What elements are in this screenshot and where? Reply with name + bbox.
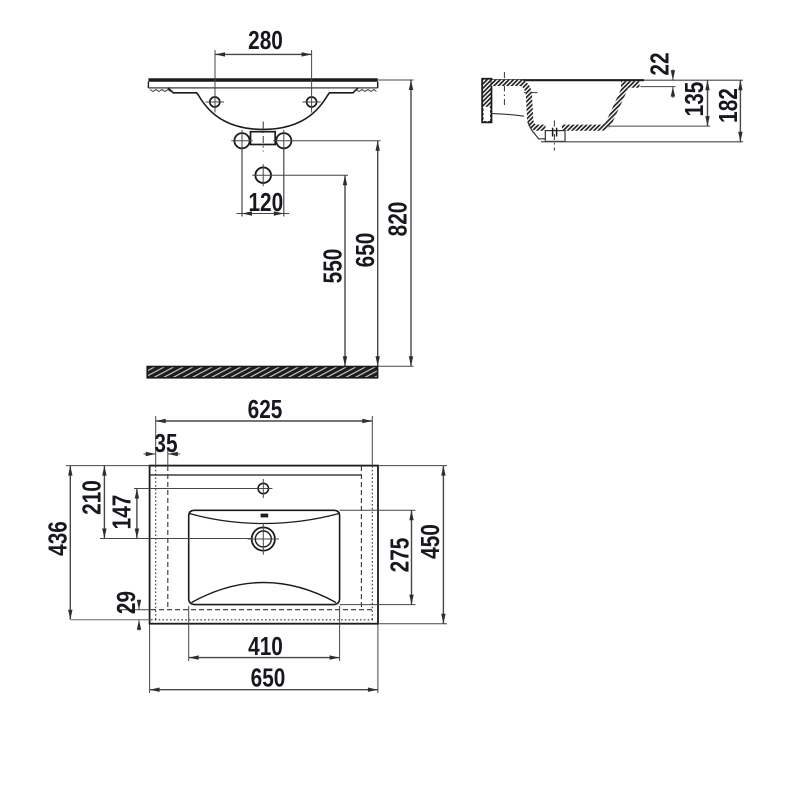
extension line: plan bottom edge to 450 dim (378, 623, 447, 625)
side view: fixing hole centerline (vertical) (503, 72, 505, 106)
dimension 210 (77, 466, 106, 539)
extension line: faucet hole to 147 dim (134, 488, 258, 490)
dimension 147 (107, 489, 139, 539)
extension line from bolt holes to 650 dim (295, 140, 381, 142)
extension line: bowl bottom to 275 dim (340, 604, 416, 606)
dimension 22 (outside arrows) (645, 52, 675, 98)
front view: overflow/trap box (251, 132, 276, 145)
svg-text:436: 436 (43, 521, 72, 556)
svg-text:550: 550 (318, 249, 347, 284)
plan view: outer rectangle (650 x 450 top) (150, 466, 378, 624)
front view: right fixing bolt hole (273, 130, 294, 152)
svg-text:820: 820 (383, 202, 412, 237)
svg-text:450: 450 (416, 524, 445, 559)
front view: left fixing bolt hole (231, 130, 252, 152)
svg-text:625: 625 (248, 395, 283, 424)
front view: left faucet hole (206, 97, 224, 107)
front view: drain hole (252, 164, 274, 186)
dimension 650 (bolt height) (351, 141, 380, 367)
plan view: hidden dashed outline (left) (167, 466, 169, 610)
dimension 550 (drain height) (318, 175, 347, 366)
dimension 650: extension verticals (150, 625, 378, 693)
extension line floor to 820 dim (378, 365, 414, 367)
plan view: overflow slot (261, 514, 269, 518)
front view: right break squiggle (356, 90, 377, 92)
side view: wall bracket (hatched section) (482, 79, 491, 123)
dimension 275 (385, 510, 414, 604)
plan view: hidden dashed outline (bottom) (151, 609, 374, 611)
svg-text:135: 135 (680, 82, 709, 117)
dimension 625 (156, 395, 373, 424)
dimension 120 (237, 188, 290, 217)
side view: overflow centerline (horizontal) (524, 92, 538, 94)
extension line from drain to 550 dim (274, 174, 348, 176)
svg-text:35: 35 (154, 429, 177, 458)
dimension 450 (416, 466, 446, 624)
extension line: dotted bottom line extended left (436/29) (71, 619, 151, 621)
dimension 820 (rim height) (383, 80, 413, 366)
dimension 29 (outside arrows) (112, 591, 142, 631)
dimension 280: extension lines (215, 50, 312, 113)
front view: right faucet hole (302, 97, 320, 107)
dimension 120: extension lines (pedestal sides) (242, 150, 284, 217)
plan view: back edge inner line (151, 474, 362, 476)
side view: outer bottom and drain boss outline (528, 122, 545, 139)
plan view: bowl front slope arc (192, 583, 337, 603)
front view: basin outline with bowl arc (168, 88, 358, 129)
front view: left break squiggle (150, 90, 171, 92)
front view: wall mounting bar (basin rim, front elevation) (148, 80, 377, 88)
dimension 436 (43, 466, 72, 620)
svg-text:29: 29 (112, 591, 141, 614)
side view: front rim section (hatched blob) (621, 81, 640, 88)
dimension 625: extension verticals (156, 416, 373, 466)
svg-text:182: 182 (714, 88, 743, 123)
dimension 182 (714, 80, 743, 142)
plan view: bowl back inner rim curve (189, 514, 339, 524)
dimension 410: extension verticals (189, 606, 340, 661)
plan view: drain (double circle) (248, 523, 279, 554)
extension line: plan top edge to 450 dim (378, 465, 447, 467)
svg-text:120: 120 (248, 188, 283, 217)
plan view: hidden dashed outline (right) (360, 466, 362, 610)
svg-text:410: 410 (248, 632, 283, 661)
svg-text:650: 650 (351, 233, 380, 268)
dimension 35: extension vertical (167, 448, 169, 466)
dimension 280 (215, 26, 312, 57)
side view: ceramic section band (deck, bowl walls and floor, hatched) (492, 83, 627, 128)
extension line: plan top edge extended left (66, 465, 150, 467)
plan view: faucet hole (254, 479, 272, 498)
dimension 410 (189, 632, 340, 661)
plan view: hidden dotted outline (bottom) (151, 619, 374, 621)
front view: vertical centerline (262, 122, 264, 152)
side view: outer shell underside line (492, 114, 525, 117)
svg-text:275: 275 (385, 538, 414, 573)
svg-text:650: 650 (251, 663, 286, 692)
extension line: bowl top edge to 275 dim (340, 509, 416, 511)
dimension 135 (680, 80, 710, 126)
extension line top to 820 dim (378, 79, 414, 81)
extension line: dashed line extended left (29) (118, 609, 151, 611)
front view: floor strip (hatched) (147, 367, 377, 378)
plan view: hidden dotted outline (left) (155, 466, 157, 620)
side view: drain centerline (553, 121, 555, 151)
extension line: 22 dim lower reference (641, 86, 676, 88)
side view: deck top surface line (492, 79, 645, 81)
extension line: drain centre to 210/147 dims (100, 538, 252, 540)
dimension 35 (outside arrows) (144, 429, 181, 458)
extension line: bowl depth 135 reference (608, 125, 710, 127)
plan view: bowl outline (189, 510, 340, 604)
svg-text:147: 147 (107, 495, 136, 530)
svg-text:280: 280 (248, 26, 283, 55)
dimension 650 (plan width) (150, 663, 378, 692)
svg-text:22: 22 (645, 52, 674, 75)
svg-text:210: 210 (77, 480, 106, 515)
plan view: hidden dotted outline (right) (371, 466, 373, 620)
side view: drain hole walls (553, 128, 557, 137)
extension line: overall depth 182 reference (541, 141, 743, 143)
extension line: top surface to 182 dim (644, 79, 743, 81)
